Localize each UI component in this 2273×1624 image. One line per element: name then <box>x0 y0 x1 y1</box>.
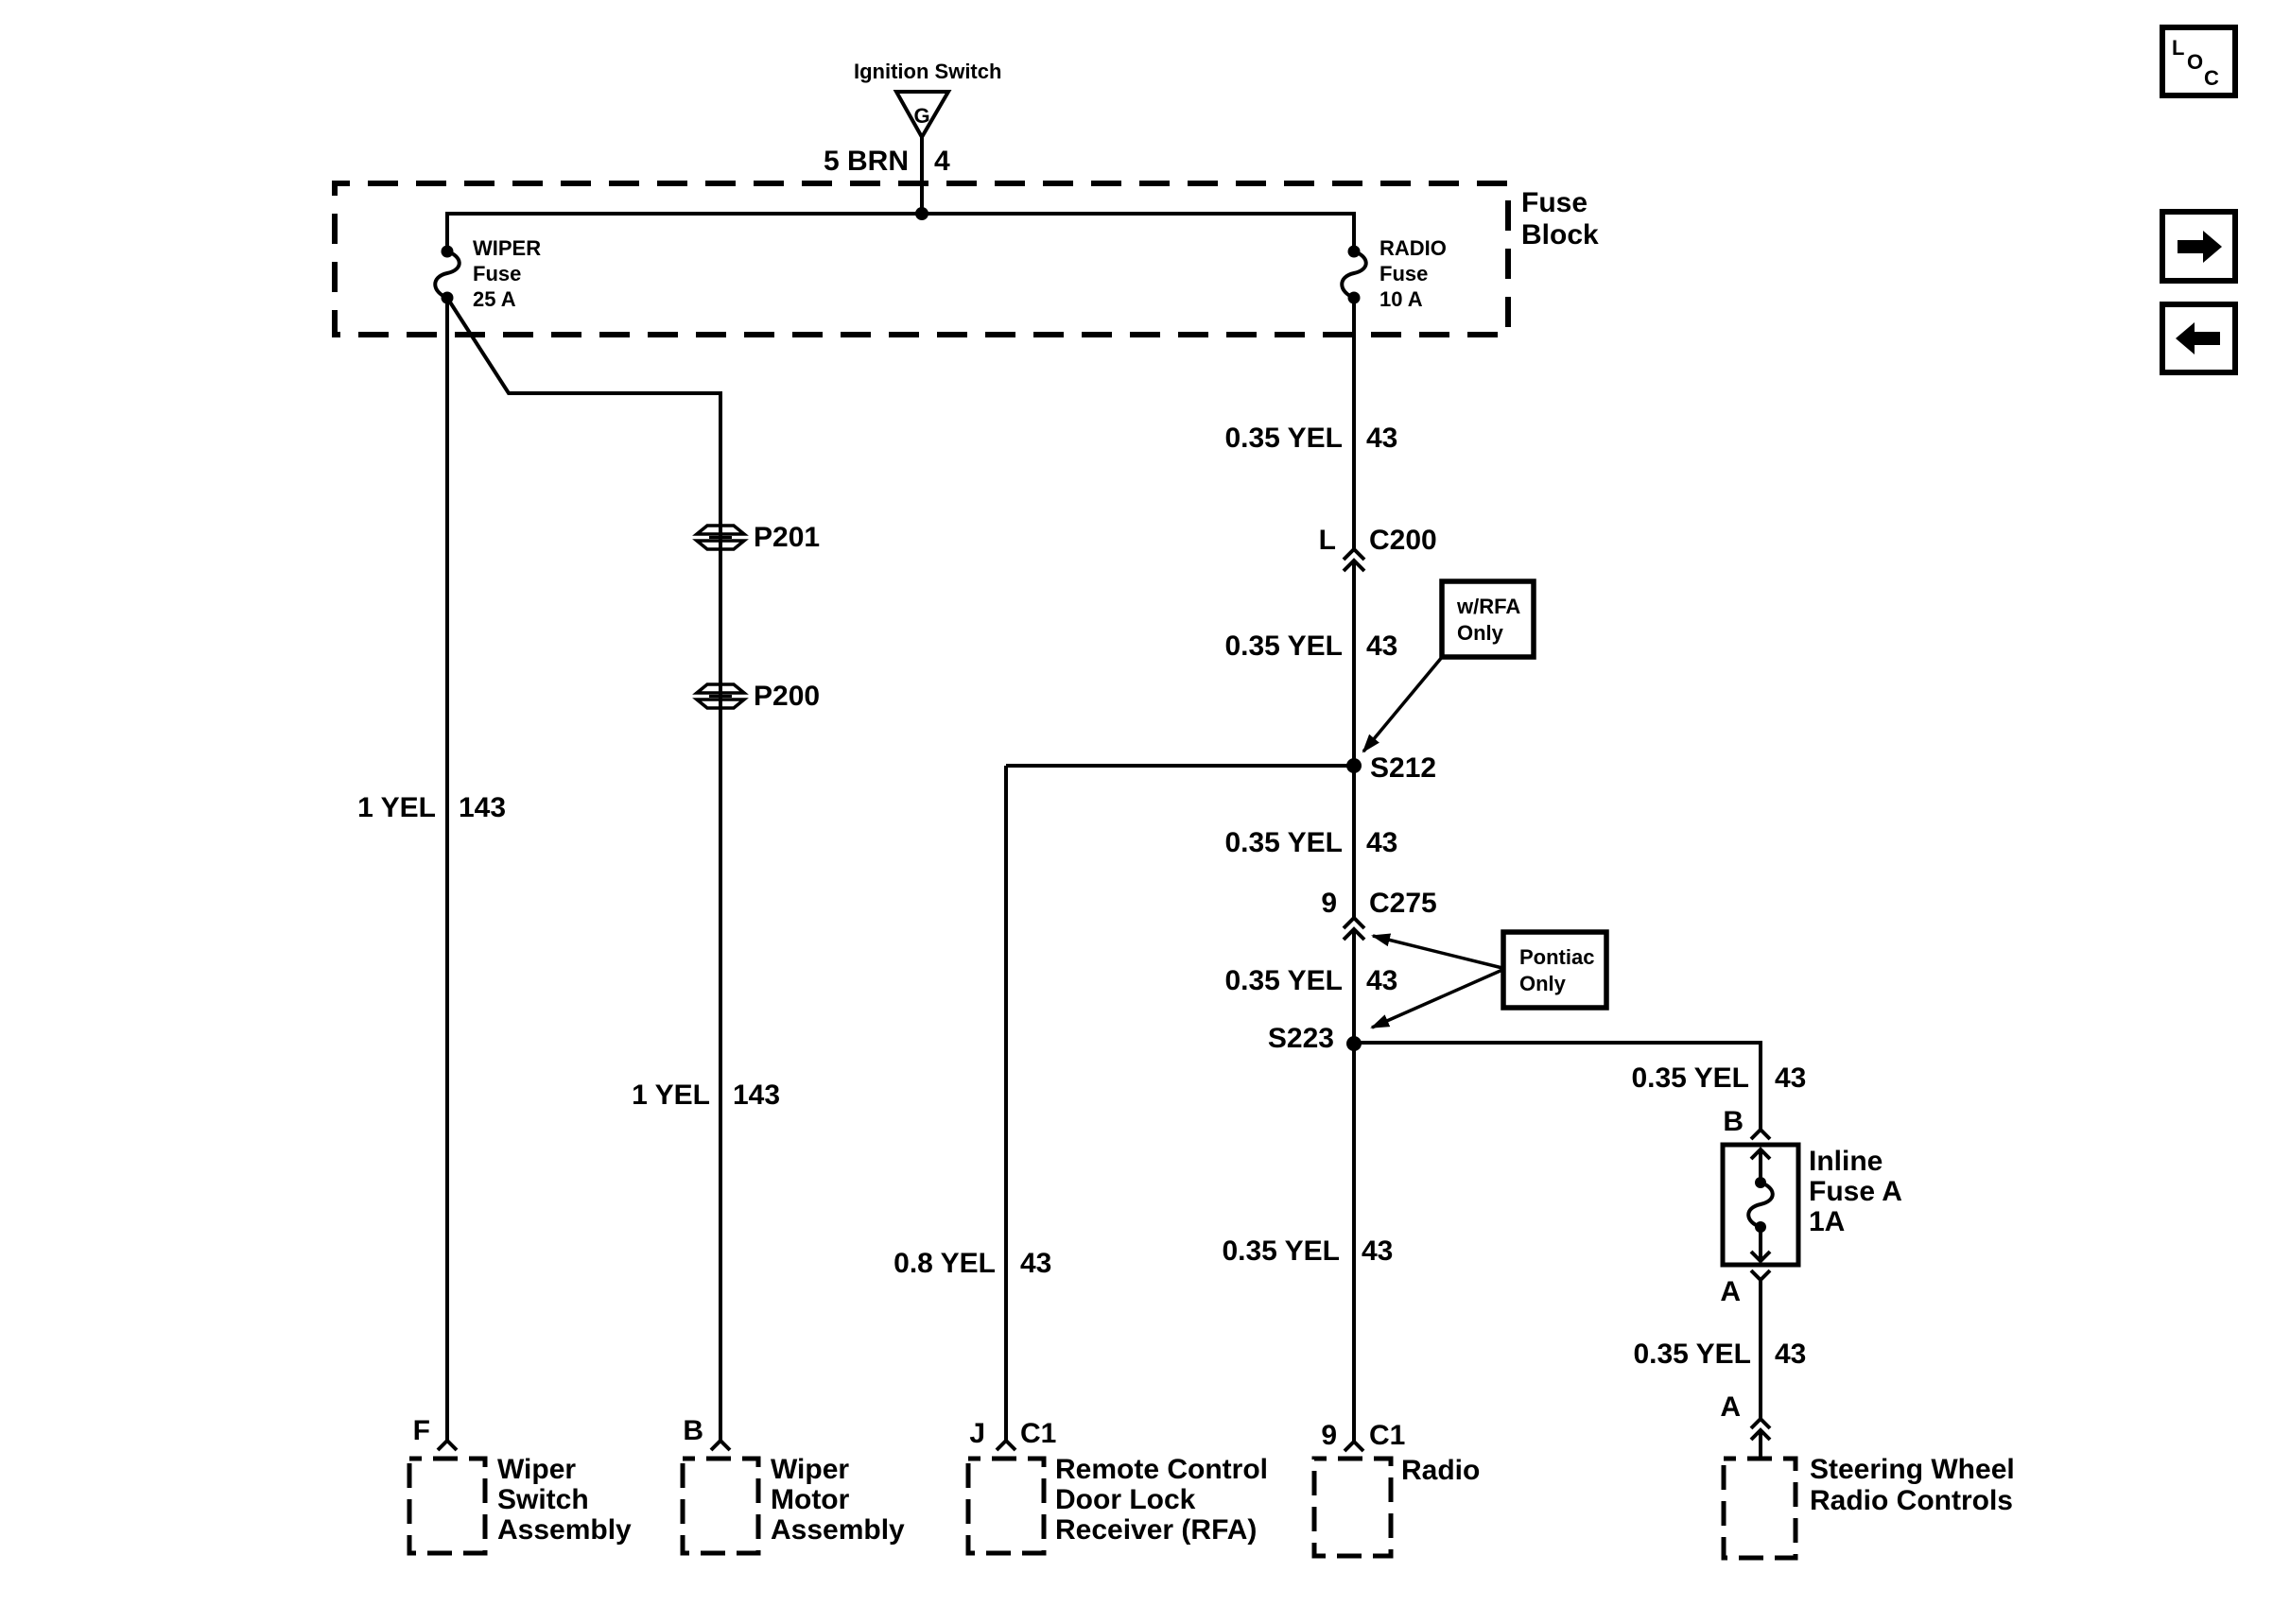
wire label 0.35 YEL 43 <box>1224 631 1397 662</box>
inline fuse A box <box>1723 1145 1798 1265</box>
connector C275 <box>1321 888 1436 940</box>
wire label 5 BRN 4 <box>824 146 950 177</box>
svg-text:5 BRN: 5 BRN <box>824 146 909 177</box>
svg-text:C1: C1 <box>1369 1420 1405 1451</box>
svg-text:1 YEL: 1 YEL <box>632 1080 710 1111</box>
svg-text:0.35 YEL: 0.35 YEL <box>1633 1339 1751 1370</box>
wire S223 to radio connector <box>1352 1044 1356 1442</box>
svg-text:4: 4 <box>934 146 950 177</box>
wiper switch assembly box <box>409 1459 485 1553</box>
arrow Pontiac to S223 <box>1372 970 1502 1028</box>
radio box <box>1314 1459 1391 1556</box>
svg-text:B: B <box>683 1415 703 1446</box>
svg-text:Only: Only <box>1519 972 1567 995</box>
svg-text:C200: C200 <box>1369 525 1437 556</box>
wire wiper fuse to F connector <box>445 298 449 1441</box>
svg-text:Fuse: Fuse <box>1379 262 1428 285</box>
Pontiac Only callout box <box>1503 932 1606 1008</box>
svg-text:Block: Block <box>1521 219 1599 251</box>
steering wheel radio controls box <box>1724 1459 1796 1558</box>
svg-text:43: 43 <box>1775 1339 1806 1370</box>
svg-text:P200: P200 <box>754 681 820 712</box>
back arrow box <box>2162 304 2235 372</box>
svg-text:1 YEL: 1 YEL <box>357 792 436 823</box>
svg-text:43: 43 <box>1366 827 1397 858</box>
svg-text:A: A <box>1720 1276 1741 1307</box>
svg-text:25 A: 25 A <box>473 287 516 311</box>
connector F wiper switch <box>413 1415 457 1450</box>
fuse block dashed box <box>335 183 1508 335</box>
svg-text:Switch: Switch <box>497 1484 589 1515</box>
connector B wiper motor <box>683 1415 730 1450</box>
svg-text:J: J <box>969 1418 985 1449</box>
arrow w/RFA to S212 <box>1363 656 1443 752</box>
svg-text:Motor: Motor <box>771 1484 850 1515</box>
wire label 0.35 YEL 43 (radio) <box>1222 1235 1393 1267</box>
grommet P201 <box>697 522 820 553</box>
svg-text:Receiver (RFA): Receiver (RFA) <box>1055 1514 1257 1546</box>
svg-text:Pontiac: Pontiac <box>1519 945 1594 969</box>
svg-text:S223: S223 <box>1268 1023 1334 1054</box>
svg-text:G: G <box>913 104 929 128</box>
svg-text:Assembly: Assembly <box>771 1514 905 1546</box>
svg-text:10 A: 10 A <box>1379 287 1423 311</box>
svg-text:43: 43 <box>1775 1063 1806 1094</box>
wire label 0.8 YEL 43 <box>894 1248 1051 1279</box>
svg-text:C275: C275 <box>1369 888 1437 919</box>
wire radio fuse down to C200 <box>1352 298 1356 549</box>
ignition switch G triangle <box>896 92 948 137</box>
wire A to steering box <box>1759 1430 1762 1459</box>
svg-text:B: B <box>1723 1106 1744 1137</box>
svg-text:Ignition Switch: Ignition Switch <box>854 60 1001 83</box>
wire label 0.35 YEL 43 <box>1224 965 1397 996</box>
svg-text:L: L <box>2172 36 2184 60</box>
wire label 0.35 YEL 43 <box>1224 827 1397 858</box>
wire label 0.35 YEL 43 (steering) <box>1633 1339 1806 1370</box>
svg-text:F: F <box>413 1415 430 1446</box>
svg-text:Steering Wheel: Steering Wheel <box>1810 1454 2015 1485</box>
svg-text:Wiper: Wiper <box>771 1454 849 1485</box>
svg-text:Fuse A: Fuse A <box>1809 1176 1902 1207</box>
svg-text:Inline: Inline <box>1809 1146 1883 1177</box>
wire RFA branch horizontal <box>1006 764 1354 768</box>
wire label 1 YEL 143 (wiper motor) <box>632 1080 780 1111</box>
svg-text:Fuse: Fuse <box>473 262 521 285</box>
svg-text:0.35 YEL: 0.35 YEL <box>1631 1063 1749 1094</box>
LOC box <box>2162 27 2235 95</box>
svg-text:A: A <box>1720 1391 1741 1423</box>
svg-text:9: 9 <box>1321 888 1337 919</box>
svg-text:Radio: Radio <box>1401 1455 1480 1486</box>
svg-text:Radio Controls: Radio Controls <box>1810 1485 2013 1516</box>
RFA box <box>968 1459 1044 1553</box>
connector 9 C1 radio <box>1321 1420 1405 1451</box>
svg-text:P201: P201 <box>754 522 820 553</box>
wire inline fuse to A connector <box>1759 1280 1762 1419</box>
arrow Pontiac to C275 <box>1373 936 1502 968</box>
node S223 <box>1268 1023 1362 1054</box>
svg-text:0.35 YEL: 0.35 YEL <box>1224 827 1343 858</box>
connector A below inline fuse <box>1720 1270 1770 1307</box>
svg-text:43: 43 <box>1020 1248 1051 1279</box>
wire label 1 YEL 143 (wiper switch) <box>357 792 506 823</box>
forward arrow box <box>2162 212 2235 281</box>
svg-text:Wiper: Wiper <box>497 1454 576 1485</box>
svg-text:w/RFA: w/RFA <box>1456 595 1520 618</box>
svg-text:O: O <box>2187 50 2203 74</box>
svg-text:0.35 YEL: 0.35 YEL <box>1224 965 1343 996</box>
svg-text:143: 143 <box>733 1080 780 1111</box>
svg-text:L: L <box>1319 525 1336 556</box>
svg-text:WIPER: WIPER <box>473 236 541 260</box>
svg-text:0.8 YEL: 0.8 YEL <box>894 1248 996 1279</box>
connector B inline fuse <box>1723 1106 1770 1139</box>
svg-text:Fuse: Fuse <box>1521 187 1588 218</box>
svg-text:0.35 YEL: 0.35 YEL <box>1224 423 1343 454</box>
svg-text:C: C <box>2204 66 2219 90</box>
wire RFA column <box>1004 766 1008 1441</box>
svg-text:0.35 YEL: 0.35 YEL <box>1224 631 1343 662</box>
node S212 <box>1346 752 1436 784</box>
svg-text:43: 43 <box>1366 631 1397 662</box>
svg-text:43: 43 <box>1362 1235 1393 1267</box>
svg-text:S212: S212 <box>1370 752 1436 784</box>
wire bus in fuse block <box>447 214 1354 251</box>
wiper motor assembly box <box>683 1459 758 1553</box>
wire label 0.35 YEL 43 (inline fuse top) <box>1631 1063 1806 1094</box>
wire ignition to bus <box>920 137 924 214</box>
svg-text:Only: Only <box>1457 621 1504 645</box>
wire label 0.35 YEL 43 <box>1224 423 1397 454</box>
wire C275 to S223 <box>1352 929 1356 1044</box>
svg-text:RADIO: RADIO <box>1379 236 1447 260</box>
svg-text:0.35 YEL: 0.35 YEL <box>1222 1235 1340 1267</box>
svg-text:Remote Control: Remote Control <box>1055 1454 1268 1485</box>
connector C200 <box>1319 525 1437 571</box>
svg-text:C1: C1 <box>1020 1418 1056 1449</box>
wire S212 to C275 <box>1352 766 1356 918</box>
svg-text:1A: 1A <box>1809 1206 1845 1237</box>
fuse block label <box>1521 187 1599 251</box>
grommet P200 <box>697 681 820 712</box>
w/RFA Only callout box <box>1442 581 1534 657</box>
connector J C1 RFA <box>969 1418 1056 1450</box>
svg-text:43: 43 <box>1366 965 1397 996</box>
svg-text:143: 143 <box>459 792 506 823</box>
wire S223 branch to inline fuse <box>1354 1043 1761 1130</box>
connector A steering wheel <box>1720 1391 1770 1440</box>
fuse WIPER 25A <box>435 246 460 304</box>
svg-text:9: 9 <box>1321 1420 1337 1451</box>
fuse RADIO 10A <box>1342 246 1366 304</box>
svg-text:43: 43 <box>1366 423 1397 454</box>
svg-text:Assembly: Assembly <box>497 1514 632 1546</box>
node ignition junction <box>915 207 928 220</box>
wire C200 to S212 <box>1352 561 1356 766</box>
wire wiper fuse diagonal to motor column <box>447 298 720 1441</box>
svg-text:Door Lock: Door Lock <box>1055 1484 1196 1515</box>
